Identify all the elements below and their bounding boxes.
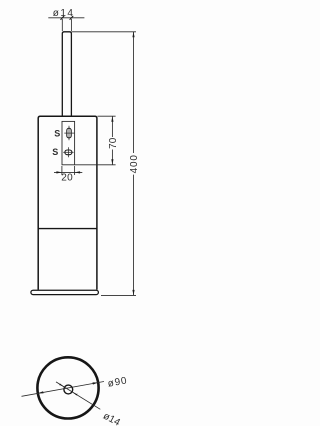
base plinth xyxy=(31,290,99,294)
dimension line 400 (lower part) xyxy=(133,175,135,296)
arrow top (70 dim, pointing up) xyxy=(111,116,113,122)
bottom slot horizontal centerline xyxy=(63,151,73,153)
dimension line 400 (upper part) xyxy=(133,32,135,153)
extension line left (rod edge up to ø14 dim) xyxy=(61,19,63,31)
extension line bottom (70 dim, from plate bottom) xyxy=(75,164,116,166)
body divider line xyxy=(38,228,97,230)
bottom view: center hole ø14 xyxy=(64,385,73,394)
extension line right (20 dim) xyxy=(74,166,76,175)
mounting plate box xyxy=(62,121,75,164)
bottom view: outer circle ø90 xyxy=(37,357,98,418)
extension line top (70 dim, from body top) xyxy=(98,115,116,117)
brush handle rod xyxy=(62,32,71,116)
arrow left (20 dim, pointing right) xyxy=(56,171,62,173)
extension line left (20 dim) xyxy=(61,166,63,175)
top slot (vertical) xyxy=(67,128,71,138)
svg-text:400: 400 xyxy=(129,154,140,173)
top slot vertical centerline xyxy=(68,126,70,141)
arrow bottom (70 dim, pointing down) xyxy=(111,159,113,165)
svg-text:20: 20 xyxy=(61,172,73,183)
leader line ø90 (diameter line through circle) xyxy=(22,382,105,397)
arrow bottom (400 dim, pointing down) xyxy=(132,290,134,296)
dimension line 20 xyxy=(54,171,82,173)
arrow upper-left (ø14, pointing at hole edge) xyxy=(59,384,65,388)
bottom slot (horizontal) xyxy=(65,150,72,155)
dimension line ø14 (top horizontal) xyxy=(48,17,84,19)
extension line bottom (400 dim, from base) xyxy=(101,294,136,296)
arrow left (ø90, at circle edge pointing outward) xyxy=(38,391,44,393)
arrow right (20 dim, pointing left) xyxy=(75,171,81,173)
svg-text:S: S xyxy=(52,147,58,157)
arrow top (400 dim, pointing up) xyxy=(132,32,134,38)
svg-text:70: 70 xyxy=(108,137,119,149)
dimension line 70 (upper part) xyxy=(111,116,113,137)
dimension line 70 (lower part) xyxy=(111,150,113,165)
leader line ø14 (through center hole) xyxy=(56,382,100,409)
arrow right (ø90, at circle edge pointing outward) xyxy=(93,382,99,384)
bottom slot vertical centerline xyxy=(67,147,69,157)
top slot horizontal centerline xyxy=(64,132,74,134)
extension line right (rod edge up to ø14 dim) xyxy=(70,19,72,31)
holder body outline xyxy=(38,116,97,290)
svg-text:S: S xyxy=(54,128,60,138)
tick mark right (ø14) xyxy=(70,16,74,20)
extension line top (400 dim, from rod top) xyxy=(71,31,136,33)
tick mark left (ø14) xyxy=(61,16,65,20)
arrow lower-right (ø14, pointing at hole edge) xyxy=(72,392,78,396)
